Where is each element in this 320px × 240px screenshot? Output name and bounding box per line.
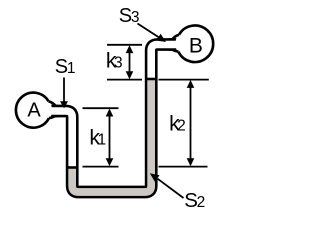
bulb A neck flare bottom — [49, 116, 58, 118]
bulb B neck flare top — [169, 35, 179, 40]
dimension arrow k2 — [187, 80, 195, 166]
bulb A neck flare top — [49, 101, 58, 106]
bulb B neck flare bottom — [169, 50, 178, 52]
level line k2 bottom — [159, 166, 208, 168]
level line k1 bottom — [83, 166, 119, 168]
tube bore (white interior) — [43, 45, 182, 193]
svg-text:k3: k3 — [106, 49, 123, 73]
bulb B — [176, 24, 215, 63]
svg-text:S1: S1 — [55, 56, 76, 78]
left meniscus line — [68, 166, 76, 169]
dimension arrow k3 — [126, 45, 134, 79]
stopcock arrow S1 — [60, 78, 68, 109]
stopcock arrow S3 — [138, 24, 167, 43]
bulb A — [15, 92, 52, 129]
svg-text:S2: S2 — [184, 189, 205, 211]
level line k2 top — [159, 79, 209, 81]
level line k1 top — [83, 107, 119, 109]
level line k3 bottom — [107, 79, 142, 81]
svg-text:k2: k2 — [169, 111, 186, 135]
stopcock arrow S2 — [150, 173, 184, 198]
svg-text:B: B — [189, 34, 203, 57]
svg-text:S3: S3 — [119, 5, 140, 27]
level line k3 top — [107, 44, 142, 46]
dimension arrow k1 — [106, 109, 114, 167]
tube outer glass walls — [46, 45, 179, 193]
svg-text:k1: k1 — [89, 126, 106, 150]
right meniscus line — [147, 78, 155, 81]
mercury column (gray) — [72, 80, 151, 192]
svg-text:A: A — [27, 99, 41, 121]
